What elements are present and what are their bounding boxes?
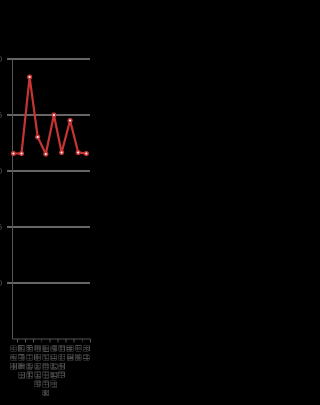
svg-text:2.0: 2.0 [0,57,2,64]
svg-text:0.5: 0.5 [0,225,2,232]
svg-text:0.0: 0.0 [0,281,2,288]
svg-text:1.5: 1.5 [0,113,2,120]
svg-text:1.0: 1.0 [0,169,2,176]
